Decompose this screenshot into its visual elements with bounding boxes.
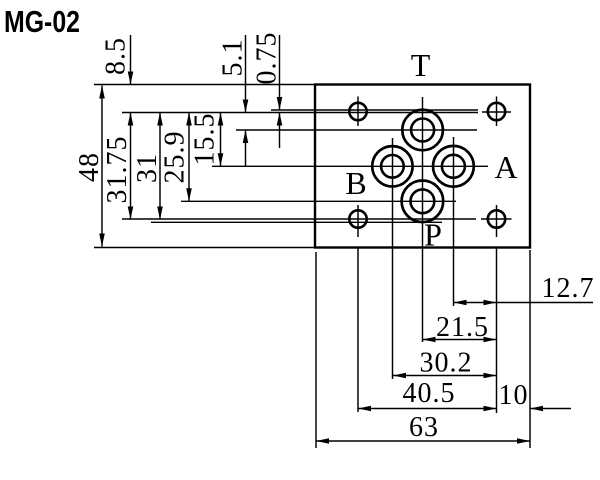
svg-text:63: 63 [409,412,439,443]
svg-text:B: B [345,165,366,201]
crosshair top-right bolt horizontal [482,111,511,113]
svg-text:P: P [424,217,442,253]
port T inner circle [411,119,434,142]
dimension 30.2 line [393,375,497,377]
port P inner circle [411,189,435,213]
svg-text:8.5: 8.5 [101,37,132,75]
port T outer circle [402,110,443,151]
port A outer circle [433,146,474,187]
bolt row line top [122,112,478,114]
dimension 48 line [101,86,103,247]
A column center line [453,137,455,306]
dimension 63 line [316,440,530,442]
A B row line [212,165,488,167]
bolt row line bottom [122,218,476,220]
B column center line [392,138,394,379]
dimension 5.1 upper extension and arrow [245,35,247,113]
dimension 0.75 lower arrow with tail [279,113,281,149]
svg-text:15.5: 15.5 [190,113,221,166]
dimension 8.5 extension and arrow [130,35,132,85]
dimension 10 outside arrow with tail [530,408,571,410]
datum line bottom (0.75 below bolt row) [151,221,442,223]
T row line [236,129,477,131]
port B inner circle [381,155,404,178]
svg-text:10: 10 [499,380,529,411]
right bolt column extension below body [496,249,498,414]
svg-text:40.5: 40.5 [403,378,456,409]
svg-text:A: A [494,149,517,185]
svg-text:48: 48 [74,152,105,182]
svg-text:T: T [411,47,431,83]
port P outer circle [402,181,444,223]
dimension 5.1 lower arrow with tail [245,130,247,166]
dimension 15.5 line [220,113,222,167]
bolt hole top-right [488,103,505,120]
bolt hole top-left [349,103,366,120]
dimension 21.5 line [423,339,497,341]
left bolt column crosshair top [357,97,359,127]
T P column center line [422,97,424,342]
svg-text:21.5: 21.5 [436,312,489,343]
right bolt column crosshair top [496,97,498,127]
port A inner circle [442,155,465,178]
svg-text:5.1: 5.1 [218,39,249,77]
dimension 31.75 line [130,113,132,220]
svg-text:0.75: 0.75 [252,32,283,85]
left bolt column crosshair bottom [357,205,359,237]
dimension 0.75 upper extension and arrow [279,35,281,110]
bolt hole bottom-right [488,210,505,227]
body outline rectangle [315,85,530,248]
svg-text:31.75: 31.75 [102,136,133,204]
top edge extension line [94,84,315,86]
body left edge extension below [315,252,317,448]
svg-text:MG-02: MG-02 [4,5,80,39]
bolt hole bottom-left [349,210,366,227]
left bolt column extension below body [357,249,359,413]
svg-text:31: 31 [132,153,163,183]
dimension 25.9 line [188,113,190,202]
bottom edge extension line [94,247,315,249]
port B outer circle [372,146,412,186]
svg-text:25.9: 25.9 [160,131,191,184]
svg-text:30.2: 30.2 [420,348,473,379]
dimension 12.7 line [454,302,594,304]
right bolt column crosshair bottom [496,205,498,237]
dimension 40.5 line [358,408,497,410]
datum line top (0.75 above bolt row) [271,109,478,111]
crosshair bottom-right bolt horizontal [481,218,512,220]
dimension 31 line [159,113,161,220]
body right edge extension below [529,250,531,448]
svg-text:12.7: 12.7 [542,273,595,304]
P row line [181,200,456,202]
